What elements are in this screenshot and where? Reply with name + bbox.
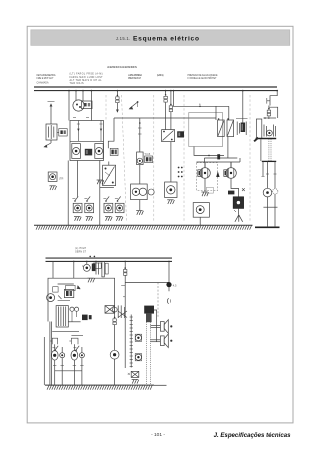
svg-text:ALT TER MAIS D CH AL: ALT TER MAIS D CH AL xyxy=(70,79,103,82)
dashed separator line 2 xyxy=(122,95,127,221)
svg-text:ACESSOR.OU ACESSORIOS: ACESSOR.OU ACESSORIOS xyxy=(107,65,137,69)
speaker SP1 xyxy=(160,320,168,334)
terminal block under E2 xyxy=(228,191,234,195)
bottom schematic heading text xyxy=(75,248,87,253)
wires down from junction 2 xyxy=(263,161,275,188)
main column wire with fuse xyxy=(121,261,125,368)
wire drop from bus xyxy=(82,91,84,101)
connector block TUB xyxy=(144,153,152,163)
contact line xyxy=(263,117,276,119)
wires lamp pair left to ground xyxy=(53,344,64,385)
ground under lamp TR xyxy=(49,186,56,190)
motor M1 wiper xyxy=(131,184,148,200)
relay inside big box bottom xyxy=(56,306,68,327)
speaker SP2 xyxy=(160,334,168,348)
fuse F4 xyxy=(169,104,172,112)
lamp TR with ground xyxy=(48,172,63,181)
wire drop to switch T1 xyxy=(138,118,142,152)
tall box K5 xyxy=(256,119,261,138)
terminal marks xyxy=(262,174,277,177)
thick junction line xyxy=(256,138,277,140)
footer chapter title xyxy=(214,432,292,439)
turn switch contacts xyxy=(68,307,80,322)
fuse F10 xyxy=(124,267,127,275)
grouping box center xyxy=(189,113,223,147)
inner wires of K1 xyxy=(77,121,103,142)
wire bus to buzzer xyxy=(168,261,170,282)
clip symbol xyxy=(167,298,170,304)
bottom bus junction dots xyxy=(73,261,170,263)
ground under antenna fuse xyxy=(132,379,139,383)
battery B1 xyxy=(46,124,57,140)
upper tie wire lamp brackets xyxy=(71,334,83,336)
turn lamp front right xyxy=(71,351,78,361)
svg-text:4,5: 4,5 xyxy=(173,283,177,287)
svg-text:PRES TEM CLT: PRES TEM CLT xyxy=(128,78,142,80)
svg-text:TER MAIS: TER MAIS xyxy=(70,82,84,85)
fuse F1 xyxy=(116,95,119,103)
flasher E1 xyxy=(198,162,211,178)
wires to SP2 xyxy=(150,340,160,342)
svg-text:J.15.1.: J.15.1. xyxy=(116,36,131,41)
wire to ground arrow under battery xyxy=(43,140,51,148)
page frame xyxy=(27,26,293,423)
wires to SP1 xyxy=(150,326,160,328)
turn lamp front left xyxy=(51,351,58,361)
flasher tie wire xyxy=(197,158,241,162)
switch T1 xyxy=(137,152,144,165)
side lamp right xyxy=(79,353,84,358)
bus junction dots xyxy=(68,90,278,92)
relay K4 with contacts xyxy=(218,118,234,136)
ground arrow blob xyxy=(253,137,258,142)
wire drop right of relay group xyxy=(228,106,230,120)
switch tick lamp row left xyxy=(52,346,58,351)
switch contact above lamp L1 xyxy=(72,196,78,201)
ground under M1 xyxy=(136,211,143,215)
wire drop from bus to box xyxy=(68,91,70,121)
antenna fuse box xyxy=(128,371,139,377)
arrow connector a xyxy=(129,101,139,109)
buzzer dark dot xyxy=(166,282,171,291)
wire to terminal block under E2 xyxy=(231,178,239,196)
terminal block dark xyxy=(82,315,88,321)
lamp L4 xyxy=(115,203,124,212)
wire drop to flasher E2 xyxy=(230,162,232,168)
dashed enclosure around flasher xyxy=(197,163,218,191)
fuse block F2 xyxy=(110,148,118,155)
svg-text:LUZ MULTIPRESA: LUZ MULTIPRESA xyxy=(128,74,142,77)
svg-text:CHAMADA: CHAMADA xyxy=(37,82,49,85)
note block 2 xyxy=(70,73,104,86)
svg-text:a: a xyxy=(199,103,201,106)
fuse block F6 xyxy=(241,123,246,133)
wire bus to big box xyxy=(73,261,75,278)
wire from bus to horizontal header xyxy=(173,91,175,107)
fuse F8 xyxy=(267,108,270,116)
wire drop from bus to box right xyxy=(90,91,92,121)
long horizontal wire xyxy=(114,117,216,119)
steering switch cluster xyxy=(47,287,62,302)
relay K3 xyxy=(162,130,175,142)
lamp bottoms tie wire xyxy=(55,370,82,372)
ribbon cable dotted pair xyxy=(146,322,150,385)
terminal dots column xyxy=(178,167,183,178)
svg-text:FAROL MAXI LUND LOST: FAROL MAXI LUND LOST xyxy=(70,76,104,79)
bus end bend wire xyxy=(270,91,277,106)
ground under horn relay xyxy=(87,278,94,282)
svg-text:F ORNELA E ALND PROTET: F ORNELA E ALND PROTET xyxy=(188,77,218,80)
ground under L2 xyxy=(86,217,93,221)
bracket above lamp row left xyxy=(50,338,57,344)
footer page number xyxy=(151,432,165,438)
wires from gauges to ground xyxy=(268,194,276,227)
wire drop to flasher E1 xyxy=(204,162,206,168)
svg-text:FME E MOT ACT: FME E MOT ACT xyxy=(37,77,55,80)
dashed separator line 3 xyxy=(153,95,155,221)
wire bend to fuse block xyxy=(108,118,114,148)
cross tick xyxy=(242,188,245,191)
wire from box to lamp group xyxy=(77,161,79,198)
header section number J.15.1. xyxy=(116,36,131,41)
bus line upper xyxy=(34,86,277,88)
bus line lower xyxy=(34,90,277,92)
dashed separator line 5 xyxy=(249,95,251,221)
horizontal wire to relay area xyxy=(173,106,229,108)
svg-text:(L) HIGH: (L) HIGH xyxy=(75,248,86,250)
ground bus extension line xyxy=(154,384,167,386)
bottom bus line lower xyxy=(46,260,173,262)
svg-text:(LT) FAROL FRSE (A-M): (LT) FAROL FRSE (A-M) xyxy=(70,73,103,76)
svg-text:T.U.B: T.U.B xyxy=(144,153,150,156)
svg-text:Esquema elétrico: Esquema elétrico xyxy=(133,36,199,43)
wire with arrow, key switch feed xyxy=(48,102,55,125)
thick junction line 2 xyxy=(262,160,276,162)
svg-text:PRESSAO DE AGUA AQUECE: PRESSAO DE AGUA AQUECE xyxy=(188,74,218,77)
under-bus horn relay cluster xyxy=(82,261,90,271)
switch contact above lamp L3 xyxy=(103,196,109,201)
note block 3 xyxy=(128,74,142,80)
horizontal tie under gauges xyxy=(263,206,277,208)
gauge G2 xyxy=(263,188,272,197)
wire from radio to speakers xyxy=(154,310,157,342)
dotted ribbon wires xyxy=(269,139,271,161)
svg-text:KEY LUZ DE MELH DA: KEY LUZ DE MELH DA xyxy=(37,74,56,77)
wire from G1 to ground bus xyxy=(199,217,201,225)
wire C1 to ground xyxy=(114,359,116,385)
label 4.5 xyxy=(173,283,177,287)
side lamp left xyxy=(60,353,65,358)
contact bars of K4 xyxy=(236,119,248,136)
regulator U1 xyxy=(73,100,92,111)
big enclosure box xyxy=(48,278,115,321)
wire with fuse to tail lamp xyxy=(114,313,116,350)
relay box K1 outline xyxy=(70,118,104,161)
bottom bus line upper xyxy=(46,257,173,259)
fuse block inside K1 xyxy=(85,149,92,156)
ground bus right segment xyxy=(255,226,280,228)
lower wires of relay group xyxy=(194,137,237,162)
label a xyxy=(199,103,201,106)
switch contact above lamp L2 xyxy=(84,196,90,201)
wire drop with fuse F8 xyxy=(268,106,270,120)
ground under E1 xyxy=(201,192,208,196)
note block 1 xyxy=(37,74,56,85)
small box label 53 xyxy=(206,187,213,193)
horn relay bracket xyxy=(102,262,108,277)
top schematic heading text xyxy=(107,65,137,69)
wire bus to box left corner xyxy=(52,261,54,278)
fuse box with cross F7 xyxy=(233,197,243,212)
relay with cross right xyxy=(105,306,115,314)
fuse F3 xyxy=(164,94,167,102)
wire from box to ground bus left xyxy=(67,161,69,226)
wire from T1 to motor M1 xyxy=(139,165,141,184)
wire drop with fuse F3 xyxy=(165,91,167,130)
double wire to ground left xyxy=(50,322,52,386)
stalk switch circle lower xyxy=(135,354,141,361)
wire and ground under M1 xyxy=(139,200,141,210)
fuse box label F0 xyxy=(57,129,67,136)
svg-text:GERN ST: GERN ST xyxy=(75,251,87,253)
dashed separator line 1 xyxy=(105,95,107,120)
branch wire right xyxy=(269,107,278,118)
bracket marks at bend xyxy=(267,98,270,104)
horn relay contacts xyxy=(89,256,101,275)
fuse block F5 xyxy=(177,131,184,137)
ladder terminal strip xyxy=(130,315,133,368)
wire from K3 to motor M2 xyxy=(170,142,172,182)
indicator lamp inside K1 left xyxy=(72,144,81,159)
header title Esquema eletrico xyxy=(133,36,199,43)
horizontal tie above lamps xyxy=(52,330,79,332)
svg-text:(TR: (TR xyxy=(59,177,63,181)
ground under M2 xyxy=(167,200,174,204)
stalk switch circle upper xyxy=(135,334,141,341)
aux circle at M1 xyxy=(148,189,154,195)
indicator lamp inside K1 right xyxy=(95,144,103,159)
wire drop into relay group xyxy=(215,106,217,120)
ground bus of bottom schematic xyxy=(45,385,154,390)
terminal block dark small xyxy=(89,315,92,319)
lamp L2 xyxy=(85,203,94,212)
tail lamp C1 xyxy=(110,350,119,359)
wires inside big box xyxy=(58,284,81,300)
arrow between flashers xyxy=(216,171,219,177)
wire pair down from junction xyxy=(260,139,262,161)
note block 5 xyxy=(188,74,218,80)
horizontal wire to buzzer xyxy=(125,281,169,283)
switch contact above lamp L4 xyxy=(115,196,121,201)
horizontal wire under relay K2 xyxy=(100,187,114,189)
speaker SP1 terminal dot xyxy=(170,325,172,327)
switch tick lamp row right xyxy=(73,346,79,351)
dashed wire column xyxy=(157,282,159,316)
ground under L4 xyxy=(116,217,123,221)
dashed separator line 4 xyxy=(183,95,185,221)
sender S1 dotted xyxy=(273,189,278,194)
hazard switch contacts xyxy=(113,305,127,318)
svg-text:J. Especificações técnicas: J. Especificações técnicas xyxy=(214,432,292,439)
note block 4 xyxy=(157,74,164,77)
ground under L3 xyxy=(105,217,112,221)
lamp L1 xyxy=(73,203,82,212)
motor M2 washer pump xyxy=(165,182,177,198)
left return wire xyxy=(43,337,45,385)
flasher E2 xyxy=(224,162,237,178)
ground at relay K2 xyxy=(97,180,104,184)
svg-text:- 101 -: - 101 - xyxy=(151,432,165,438)
svg-text:(GASOL): (GASOL) xyxy=(157,74,164,77)
gauge sender G1 xyxy=(193,203,209,218)
relay contacts K5 xyxy=(264,125,276,137)
lamp L3 xyxy=(104,203,113,212)
bracket above lamp row right xyxy=(69,338,78,344)
wire feeding relay K2 xyxy=(99,161,101,226)
fuse F9 xyxy=(113,317,116,325)
wire drop with fuse F4 xyxy=(170,91,172,130)
wires lamp pair right to ground xyxy=(73,344,84,385)
ground bus of top schematic xyxy=(34,225,253,230)
header bar xyxy=(31,30,290,46)
wire drop from bus to regulator xyxy=(75,91,77,100)
ground under F7 xyxy=(235,208,243,221)
flasher unit box xyxy=(64,285,75,297)
ground under L1 xyxy=(74,217,81,221)
wire from bus to fuse F6 xyxy=(242,91,244,124)
radio unit dark box xyxy=(144,306,154,323)
speaker SP2 terminal dot xyxy=(170,340,172,342)
wire and ground under E1 xyxy=(204,178,206,191)
wire drop with fuse F1 xyxy=(116,91,119,113)
relay K2 flasher cluster xyxy=(103,162,116,186)
